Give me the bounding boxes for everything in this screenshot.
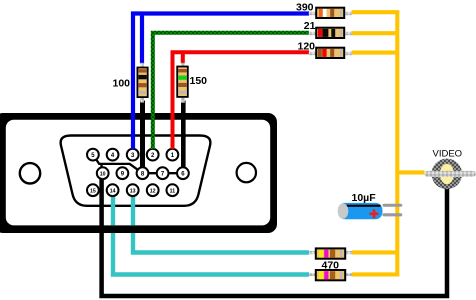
wire: ground bus pin8-pin7-pin6 — [143, 172, 183, 174]
svg-text:390: 390 — [296, 1, 314, 13]
wire: blue branch to resistor R6 — [140, 12, 144, 64]
pin 6 — [177, 167, 189, 179]
svg-text:10: 10 — [100, 172, 106, 178]
resistor R4 470 — [309, 248, 352, 258]
pin 15 — [87, 184, 99, 196]
wire: cyan VSync inside shell at pin 14 — [111, 194, 115, 226]
svg-text:21: 21 — [304, 20, 316, 32]
connector J1 DB15 shell — [0, 113, 277, 233]
pin 11 — [167, 184, 179, 196]
svg-text:10µF: 10µF — [352, 192, 377, 204]
capacitor C1 10uF — [338, 203, 403, 219]
pin 3 — [127, 149, 139, 161]
connector J2 VIDEO RCA jack — [425, 159, 476, 190]
wire: lead from resistor R6 to pin 8 — [140, 101, 145, 173]
pin 13 — [127, 184, 139, 196]
resistor R7 150 vertical — [177, 63, 188, 103]
pin 1 — [167, 149, 179, 161]
resistor R3 120 — [309, 48, 352, 58]
resistor R6 100 vertical — [137, 63, 147, 103]
wire: red branch to resistor R7 — [181, 50, 185, 63]
wire: red Red-signal pin1 to resistor R3 — [173, 52, 310, 149]
pin 12 — [147, 184, 159, 196]
resistor R5 470 — [309, 270, 352, 280]
pin 7 — [157, 167, 169, 179]
wire: ground inside shell at pin 10 — [99, 176, 104, 226]
screw hole right — [237, 163, 256, 182]
pin 10 — [97, 167, 109, 179]
wire: cyan HSync from pin 13 to resistor R4 — [133, 194, 309, 253]
pin 8 — [137, 167, 149, 179]
svg-text:150: 150 — [190, 75, 208, 87]
pin 4 — [107, 149, 119, 161]
screw hole left — [20, 163, 40, 183]
svg-text:14: 14 — [110, 189, 116, 195]
wire: yellow video bus — [352, 12, 425, 274]
svg-text:12: 12 — [150, 189, 156, 195]
svg-text:13: 13 — [130, 189, 136, 195]
wire: blue Blue-signal pin3 to resistor R1 — [133, 14, 309, 150]
wire: green Green-signal pin2 to resistor R2 — [153, 33, 309, 149]
resistor R2 21 — [309, 28, 352, 38]
svg-text:15: 15 — [90, 189, 96, 195]
svg-text:VIDEO: VIDEO — [433, 148, 463, 159]
wire: lead from resistor R7 to pin 6 — [181, 101, 186, 173]
svg-text:120: 120 — [298, 41, 316, 53]
wire: link pin5-pin10-pin8 — [93, 155, 143, 174]
pin 5 — [87, 149, 99, 161]
resistor R1 390 — [309, 8, 352, 18]
svg-text:100: 100 — [113, 78, 131, 90]
svg-text:11: 11 — [170, 189, 176, 195]
pin 9 — [117, 167, 129, 179]
wire: ground from pin 10 to VIDEO jack shield — [102, 178, 447, 296]
D-shell outline — [61, 136, 211, 206]
wire: cyan VSync from pin 14 to resistor R5 — [113, 194, 309, 275]
pin 14 — [107, 184, 119, 196]
pin 2 — [147, 149, 159, 161]
wire: cyan HSync inside shell at pin 13 — [131, 194, 135, 226]
